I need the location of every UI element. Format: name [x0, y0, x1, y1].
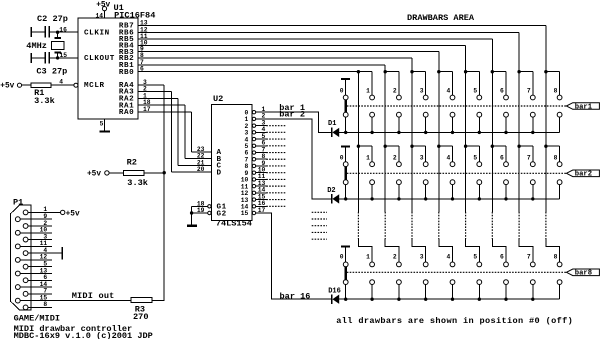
svg-text:17: 17 — [143, 106, 151, 113]
node bar1 column 4 junction — [437, 70, 440, 73]
drawbar row bar1 position 0 wiper bridge — [340, 88, 348, 133]
diode D16 — [328, 287, 341, 304]
node bar8 contact 6 bus junction — [504, 298, 507, 301]
svg-text:MCLR: MCLR — [84, 82, 105, 90]
svg-text:12: 12 — [40, 254, 48, 261]
svg-text:20: 20 — [197, 166, 205, 173]
svg-text:bar1: bar1 — [575, 103, 593, 111]
svg-text:1: 1 — [366, 253, 370, 260]
node bar1 position 0 bus junction — [344, 131, 347, 134]
svg-text:6: 6 — [500, 88, 504, 95]
drawbar row bar8 position 0 no-connect bar — [341, 246, 350, 265]
drawbar row bar2 switch position 1 — [358, 146, 374, 199]
drawbar row bar2 switch position 3 — [412, 146, 428, 199]
drawbar row bar1 switch position 8 — [546, 72, 562, 133]
svg-text:15: 15 — [241, 210, 249, 217]
node bar2 contact 1 bus junction — [370, 197, 373, 200]
node bar8 contact 7 bus junction — [531, 298, 534, 301]
drawbar row bar2 switch position 2 — [385, 146, 401, 199]
P1 pin 12 stub — [15, 254, 52, 263]
node bar8 contact 2 bus junction — [397, 298, 400, 301]
svg-text:+5v: +5v — [0, 82, 14, 90]
svg-text:16: 16 — [59, 26, 67, 33]
node bar1 contact 5 bus junction — [478, 131, 481, 134]
drawbar row bar2 position 0 wiper bridge — [340, 154, 348, 199]
svg-text:3: 3 — [420, 88, 424, 95]
node bar1 contact 2 bus junction — [397, 131, 400, 134]
capacitor C3 27p — [31, 52, 78, 77]
U1 pin 5 ground — [100, 119, 111, 132]
wire bar 2 from U2 output 1 — [266, 110, 331, 199]
svg-text:DRAWBARS AREA: DRAWBARS AREA — [407, 13, 475, 23]
node bar2 column 7 junction — [517, 145, 520, 148]
node bar2 contact 7 bus junction — [531, 197, 534, 200]
drawbar row bar1 position 0 no-connect bar — [341, 78, 350, 97]
svg-text:G2: G2 — [217, 210, 227, 218]
node bar2 column 2 junction — [384, 145, 387, 148]
drawbar row bar1 switch position 4 — [439, 72, 455, 133]
svg-text:10: 10 — [40, 227, 48, 234]
node bar1 column 6 junction — [491, 70, 494, 73]
P1 pin 13 stub — [15, 267, 52, 276]
node bar1 contact 3 bus junction — [424, 131, 427, 134]
node bar1 column 5 junction — [464, 70, 467, 73]
U1 left pin labels — [84, 30, 115, 91]
wire bar 1 from U2 output 0 — [266, 103, 331, 132]
svg-text:2: 2 — [393, 88, 397, 95]
wire bar1 wiper dotted line — [347, 105, 567, 107]
drawbar row bar8 position 0 wiper bridge — [340, 253, 348, 299]
connector P1 DB15 shell — [11, 197, 60, 323]
svg-text:CLKIN: CLKIN — [84, 30, 110, 38]
node bar2 column 3 junction — [410, 145, 413, 148]
svg-text:15: 15 — [40, 294, 48, 301]
P1 pin 2 stub — [23, 220, 52, 229]
node bar1 column 3 junction — [410, 70, 413, 73]
svg-text:4: 4 — [43, 247, 47, 254]
net flag bar8 — [566, 269, 599, 278]
svg-text:R2: R2 — [127, 157, 137, 167]
svg-text:8: 8 — [554, 154, 558, 161]
svg-text:14: 14 — [95, 13, 103, 20]
drawbar row bar2 switch position 4 — [439, 146, 455, 199]
drawbar row bar8 switch position 1 — [358, 239, 374, 299]
svg-text:0: 0 — [340, 154, 344, 161]
drawbar row bar8 switch position 7 — [519, 239, 535, 299]
hidden bars dotted marks — [312, 212, 327, 239]
svg-text:8: 8 — [554, 88, 558, 95]
svg-text:4MHz: 4MHz — [26, 41, 47, 51]
svg-text:+5v: +5v — [66, 211, 80, 219]
node bar2 column 1 junction — [357, 145, 360, 148]
node bar2 contact 3 bus junction — [424, 197, 427, 200]
svg-text:5: 5 — [100, 121, 104, 128]
svg-text:CLKOUT: CLKOUT — [84, 55, 115, 63]
resistor R2 3.3k pull-up — [87, 157, 164, 188]
wire RA0-RA3 to U2 inputs, RA4 down to MIDI — [138, 85, 211, 300]
svg-text:U2: U2 — [213, 94, 223, 104]
P1 pin 9 stub — [15, 213, 52, 222]
P1 pin 5 stub — [23, 260, 52, 269]
node R2-RA4 junction — [163, 171, 166, 174]
svg-text:0: 0 — [340, 253, 344, 260]
svg-text:7: 7 — [527, 88, 531, 95]
svg-text:RA0: RA0 — [119, 109, 134, 117]
svg-text:MDBC-16x9 v.1.0 (c)2001 JDP: MDBC-16x9 v.1.0 (c)2001 JDP — [14, 331, 153, 339]
svg-text:5: 5 — [473, 253, 477, 260]
svg-text:PIC16F84: PIC16F84 — [114, 11, 155, 21]
svg-text:D: D — [217, 169, 222, 177]
U1 MCLR inverting bubble — [74, 83, 78, 87]
P1 pin 8 stub — [23, 301, 52, 310]
svg-text:8: 8 — [554, 253, 558, 260]
P1 pin 10 stub — [15, 227, 52, 236]
svg-text:3.3k: 3.3k — [127, 178, 148, 188]
wire bar2 wiper dotted line — [347, 172, 567, 174]
node bar2 contact 2 bus junction — [397, 197, 400, 200]
P1 pin 11 stub — [15, 240, 52, 249]
node bar2 contact 4 bus junction — [451, 197, 454, 200]
drawbar row bar2 switch position 6 — [492, 146, 508, 199]
svg-text:5: 5 — [473, 88, 477, 95]
P1 pin 3 stub — [23, 233, 52, 242]
svg-text:+5v: +5v — [96, 1, 110, 9]
U1 right pin labels RB7-RB0 RA4-RA0 — [119, 23, 134, 117]
node bar2 position 0 bus junction — [344, 197, 347, 200]
U1 RA pin numbers — [143, 79, 151, 113]
U2 unused output dotted stubs — [266, 126, 286, 207]
svg-text:3: 3 — [420, 154, 424, 161]
P1 pin 15 MIDI out wire — [15, 291, 131, 303]
svg-text:270: 270 — [133, 312, 148, 322]
wire bar1 bottom bus — [339, 131, 559, 133]
node bar8 contact 5 bus junction — [478, 298, 481, 301]
svg-text:8: 8 — [43, 301, 47, 308]
U1 pin 14 +5V supply — [95, 1, 110, 19]
node bar2 column 4 junction — [437, 145, 440, 148]
svg-text:bar8: bar8 — [575, 270, 592, 278]
drawbar row bar2 switch position 8 — [546, 146, 562, 199]
svg-text:6: 6 — [500, 253, 504, 260]
svg-text:6: 6 — [500, 154, 504, 161]
svg-text:RB0: RB0 — [119, 69, 134, 77]
ground below U2 — [187, 224, 197, 226]
drawbar row bar1 switch position 5 — [466, 72, 482, 133]
svg-text:bar2: bar2 — [575, 171, 592, 179]
diode D1 — [328, 120, 339, 137]
wire bar2 bottom bus — [339, 198, 559, 200]
svg-text:7: 7 — [527, 154, 531, 161]
node bar1 column 2 junction — [384, 70, 387, 73]
diode D2 — [327, 187, 339, 204]
drawbar row bar1 switch position 7 — [519, 72, 535, 133]
svg-text:P1: P1 — [13, 197, 23, 207]
svg-text:14: 14 — [40, 281, 48, 288]
svg-text:bar 2: bar 2 — [279, 110, 305, 120]
svg-text:3.3k: 3.3k — [34, 96, 55, 106]
node bar1 contact 7 bus junction — [531, 131, 534, 134]
drawbar row bar2 switch position 7 — [519, 146, 535, 199]
node G1-G2 junction — [190, 211, 193, 214]
drawbar row bar8 switch position 3 — [412, 239, 428, 299]
P1 pin 1 to +5V — [23, 206, 80, 218]
U1 RB pin numbers — [140, 20, 148, 73]
node bar2 column 8 junction — [544, 145, 547, 148]
node CLKOUT junction — [56, 56, 59, 59]
node bar2 contact 5 bus junction — [478, 197, 481, 200]
P1 pin 14 stub — [15, 281, 52, 290]
svg-text:6: 6 — [140, 66, 144, 73]
svg-text:C2 27p: C2 27p — [37, 14, 68, 24]
node bar1 contact 4 bus junction — [451, 131, 454, 134]
microcontroller U1 PIC16F84 body — [78, 3, 155, 119]
svg-text:1: 1 — [366, 88, 370, 95]
wire bar8 bottom bus — [339, 298, 559, 300]
node bar1 column 8 junction — [544, 70, 547, 73]
drawbar row bar2 position 0 no-connect bar — [341, 146, 350, 165]
drawbar row bar8 switch position 5 — [466, 239, 482, 299]
drawbar row bar1 switch position 1 — [358, 72, 374, 133]
U2 G1 G2 enable wires to ground — [192, 205, 211, 225]
node bar2 column 6 junction — [491, 145, 494, 148]
U2 output bubbles and stubs — [241, 106, 267, 217]
svg-text:3: 3 — [420, 253, 424, 260]
P1 pin 4 shield terminal — [23, 247, 63, 259]
node bar1 column 1 junction — [357, 70, 360, 73]
svg-text:D16: D16 — [328, 287, 341, 295]
svg-text:15: 15 — [60, 52, 68, 59]
svg-text:1: 1 — [366, 154, 370, 161]
node bar1 contact 1 bus junction — [370, 131, 373, 134]
node bar2 column 5 junction — [464, 145, 467, 148]
svg-text:C3 27p: C3 27p — [36, 66, 67, 76]
svg-text:GAME/MIDI: GAME/MIDI — [14, 313, 60, 323]
drawbar row bar8 switch position 2 — [385, 239, 401, 299]
wire bar8 wiper dotted line — [347, 271, 567, 273]
drawbar row bar8 switch position 8 — [546, 239, 562, 299]
net flag bar2 — [566, 170, 599, 179]
drawbar row bar1 switch position 2 — [385, 72, 401, 133]
crystal 4MHz — [26, 32, 64, 58]
wire bar 16 from U2 output 15 — [266, 213, 331, 301]
svg-text:all drawbars are shown in posi: all drawbars are shown in position #0 (o… — [336, 316, 573, 326]
svg-text:4: 4 — [447, 88, 451, 95]
drawbar row bar1 switch position 6 — [492, 72, 508, 133]
drawbar row bar8 switch position 6 — [492, 239, 508, 299]
svg-text:2: 2 — [393, 253, 397, 260]
svg-text:5: 5 — [473, 154, 477, 161]
resistor R1 3.3k — [0, 79, 74, 106]
node bar8 contact 3 bus junction — [424, 298, 427, 301]
svg-text:MIDI out: MIDI out — [72, 291, 115, 301]
U2 input labels A B C D G1 G2 and pin numbers — [197, 146, 227, 218]
decoder U2 74LS154 body — [211, 94, 252, 228]
svg-text:17: 17 — [258, 207, 266, 214]
drawbar row bar1 switch position 3 — [412, 72, 428, 133]
svg-text:bar 16: bar 16 — [280, 291, 311, 301]
node bar8 contact 4 bus junction — [451, 298, 454, 301]
svg-text:7: 7 — [527, 253, 531, 260]
svg-text:D2: D2 — [327, 187, 335, 195]
svg-text:D1: D1 — [328, 120, 336, 128]
svg-text:9: 9 — [43, 213, 47, 220]
node bar8 contact 1 bus junction — [370, 298, 373, 301]
svg-text:4: 4 — [447, 253, 451, 260]
svg-text:+5v: +5v — [87, 171, 101, 179]
svg-text:74LS154: 74LS154 — [216, 219, 252, 229]
node CLKIN junction — [56, 31, 59, 34]
svg-text:2: 2 — [393, 154, 397, 161]
P1 pin 7 stub — [23, 288, 52, 297]
node bar1 contact 6 bus junction — [504, 131, 507, 134]
svg-text:13: 13 — [40, 267, 48, 274]
P1 pin 6 stub — [23, 274, 52, 283]
wire RB bus lines with elbows — [138, 26, 546, 240]
node bar2 contact 6 bus junction — [504, 197, 507, 200]
svg-text:4: 4 — [59, 79, 63, 86]
resistor R3 270 — [131, 173, 165, 322]
node bar8 position 0 bus junction — [344, 298, 347, 301]
drawbar row bar8 switch position 4 — [439, 239, 455, 299]
capacitor C2 27p — [31, 14, 78, 38]
svg-text:0: 0 — [340, 88, 344, 95]
svg-text:4: 4 — [447, 154, 451, 161]
title text — [14, 324, 153, 339]
drawbar row bar2 switch position 5 — [466, 146, 482, 199]
node bar1 column 7 junction — [517, 70, 520, 73]
net flag bar1 — [566, 103, 599, 112]
